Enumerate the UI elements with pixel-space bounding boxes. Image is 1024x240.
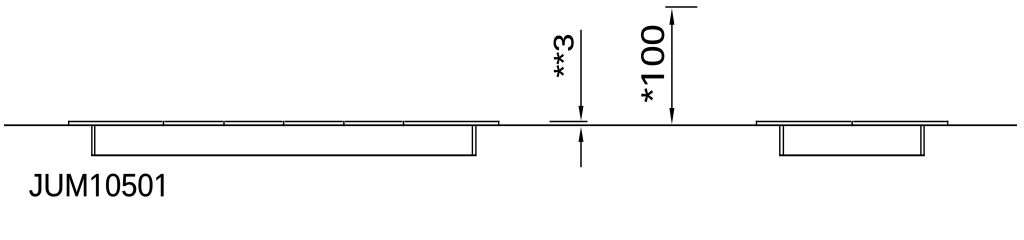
left frame bottom: [91, 154, 476, 156]
dim 3 upper extension line: [580, 30, 582, 107]
right frame left wall (double line): [779, 126, 784, 155]
dim 3 label **3: [554, 35, 574, 77]
left deck end caps: [68, 121, 499, 126]
left deck plank joints: [163, 121, 405, 126]
dim 100 bottom arrowhead pointing down: [669, 108, 674, 125]
dim 100 top reference tick: [665, 6, 697, 8]
dim 3 reference line at deck top level: [550, 121, 588, 122]
dim 100 label *100: [641, 26, 664, 102]
right deck end caps: [756, 121, 949, 126]
dim 3 upper arrowhead pointing down: [579, 106, 584, 121]
left frame right wall (double line): [472, 126, 477, 155]
dim 100 top arrowhead pointing up: [669, 8, 674, 25]
right deck plank joint: [851, 121, 853, 126]
dim 3 lower extension line: [580, 141, 582, 167]
part number JUM10501: [29, 174, 163, 197]
left deck plank top lines: [68, 121, 499, 123]
dim 3 lower arrowhead pointing up: [579, 127, 584, 142]
right deck plank top lines: [756, 121, 949, 123]
right frame bottom: [779, 154, 925, 156]
left frame left wall (double line): [91, 126, 95, 155]
right frame right wall (double line): [920, 126, 925, 155]
ground line: [4, 124, 1017, 126]
dim 100 dimension line: [671, 24, 673, 109]
